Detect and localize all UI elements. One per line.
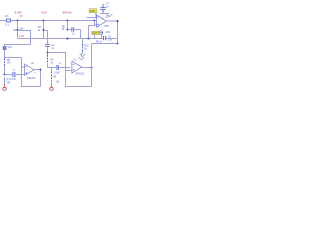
svg-text:1u: 1u — [72, 32, 75, 35]
svg-text:0.1: 0.1 — [5, 24, 9, 27]
svg-text:10k: 10k — [19, 27, 24, 30]
wire yellow stem — [95, 12, 97, 17]
node dot bus-C — [67, 20, 69, 22]
wire drop x43.5 — [43, 21, 45, 39]
wire R5 to node — [4, 66, 6, 75]
resistor R1 (series on bus) — [6, 19, 10, 22]
wire yellow2 stem — [94, 35, 96, 39]
capacitor C4 (series minus wire) — [57, 65, 58, 70]
svg-text:604.8m: 604.8m — [63, 11, 73, 15]
node dot 67.5 — [67, 29, 69, 31]
wire y43.5 — [92, 43, 118, 45]
wire x117.5 — [117, 21, 119, 44]
svg-text:10n: 10n — [108, 39, 113, 42]
wire U3 output — [82, 67, 92, 69]
svg-text:1M: 1M — [7, 62, 10, 65]
wire branch to C loop — [48, 53, 92, 87]
node dot bus-A — [17, 20, 19, 22]
svg-text:1.0uF: 1.0uF — [10, 78, 17, 81]
resistor R6 (dashed) — [51, 68, 53, 72]
net label yellow VDD — [89, 9, 97, 13]
svg-text:VM1: VM1 — [105, 32, 110, 34]
svg-text:R2: R2 — [13, 29, 17, 32]
svg-text:OUT: OUT — [92, 32, 98, 35]
svg-text:1.0uF: 1.0uF — [54, 71, 61, 74]
ground arrow top right — [107, 14, 113, 17]
wire x4.5 down — [4, 57, 6, 60]
svg-text:1k: 1k — [62, 28, 65, 31]
wire minus input U5 — [87, 17, 97, 19]
resistor R7 (dashed) — [4, 78, 6, 85]
wire C7 bottom — [100, 13, 108, 15]
wire W1 top — [18, 31, 31, 45]
wire x88.5 from plus jog — [89, 21, 95, 39]
svg-text:1M: 1M — [7, 81, 10, 84]
wire U5 output — [106, 20, 117, 22]
svg-text:6: 6 — [35, 73, 37, 75]
capacitor C5 — [72, 27, 74, 32]
node dot bus-B — [43, 20, 45, 22]
wire U2 output — [34, 70, 41, 87]
node dot 117.5-43.5 — [117, 43, 119, 45]
node dot U5 out — [117, 20, 119, 22]
wire drop x17.5 — [17, 21, 19, 39]
wire R4 to minus wire — [48, 64, 71, 68]
svg-text:1u: 1u — [106, 5, 109, 8]
wire branch 43.5 to 47.5 — [44, 31, 48, 44]
wire C5 to corner — [74, 30, 80, 39]
port input square — [3, 47, 6, 50]
svg-text:0V: 0V — [20, 16, 23, 18]
wire port stem — [101, 34, 103, 38]
wire plus input U2 — [5, 74, 25, 76]
svg-text:1.2V: 1.2V — [19, 34, 25, 38]
node dot U3 out — [91, 67, 93, 69]
capacitor C7 top right — [100, 4, 105, 14]
node dot 17.5 — [17, 29, 19, 31]
wire main top bus — [0, 20, 95, 22]
wire W1 left — [5, 45, 31, 58]
op-amp U2 — [25, 64, 34, 75]
svg-text:C8: C8 — [12, 70, 16, 72]
op-amp U3 — [72, 61, 82, 73]
ground arrow above U3 — [79, 53, 85, 60]
wire drop x67.5 — [67, 21, 69, 30]
svg-text:6.09V: 6.09V — [15, 11, 22, 15]
node dot bus-end — [94, 20, 96, 22]
node dot 43.5 — [43, 29, 45, 31]
capacitor C6 (series y38.5) — [104, 36, 106, 40]
capacitor C1 — [13, 72, 15, 77]
svg-text:6.0V: 6.0V — [41, 11, 47, 15]
node dot 4.5 — [4, 74, 6, 76]
svg-text:U3: U3 — [73, 59, 77, 61]
svg-text:1k: 1k — [38, 29, 41, 32]
node dot U2 out corner — [40, 69, 42, 71]
capacitor C2 (x47.5 chain) — [45, 44, 50, 46]
ground arrow below R10 — [80, 52, 86, 57]
resistor R4 (dashed body) — [47, 55, 49, 64]
wire R6 to gnd — [51, 80, 53, 86]
port circle out — [99, 31, 103, 35]
svg-text:+: + — [8, 50, 10, 52]
svg-text:1k: 1k — [50, 61, 53, 64]
wire U3 plus jog — [66, 69, 72, 71]
wire to C5 — [68, 29, 72, 31]
wire feedback x21.5 — [22, 58, 41, 87]
svg-text:1u: 1u — [51, 47, 54, 50]
svg-text:R6: R6 — [53, 76, 57, 79]
svg-text:1M: 1M — [56, 80, 59, 83]
svg-text:U2: U2 — [31, 63, 35, 65]
node dot 67.5-38.5 — [67, 38, 69, 40]
svg-text:R1: R1 — [5, 15, 9, 18]
wire feedback vertical x91.5 — [91, 44, 93, 87]
net label yellow OUT — [92, 31, 99, 35]
svg-text:1k: 1k — [84, 47, 87, 50]
ground red 1 — [3, 84, 7, 90]
svg-text:VDD: VDD — [90, 9, 96, 13]
op-amp U5 — [97, 15, 107, 27]
wire long mid y38.5 — [18, 38, 118, 40]
svg-text:U5: U5 — [105, 17, 109, 19]
resistor R10 (dashed) — [82, 44, 84, 52]
wire stub under C2 — [47, 47, 49, 55]
svg-text:OPA333: OPA333 — [75, 72, 84, 75]
svg-text:OPA333: OPA333 — [27, 77, 36, 80]
resistor R5 (dashed) — [4, 58, 6, 66]
ground red 2 — [50, 85, 54, 90]
node dot 88.5 — [88, 38, 90, 40]
svg-text:OPA: OPA — [104, 25, 109, 28]
wire minus stub U2 — [22, 66, 25, 68]
wire plus stub U5 — [95, 24, 97, 26]
svg-text:VF1: VF1 — [8, 46, 13, 49]
svg-text:C4: C4 — [58, 63, 62, 65]
wire resistor drop x82.5 — [82, 39, 84, 45]
node dot 47.5-52.5 — [47, 52, 49, 54]
